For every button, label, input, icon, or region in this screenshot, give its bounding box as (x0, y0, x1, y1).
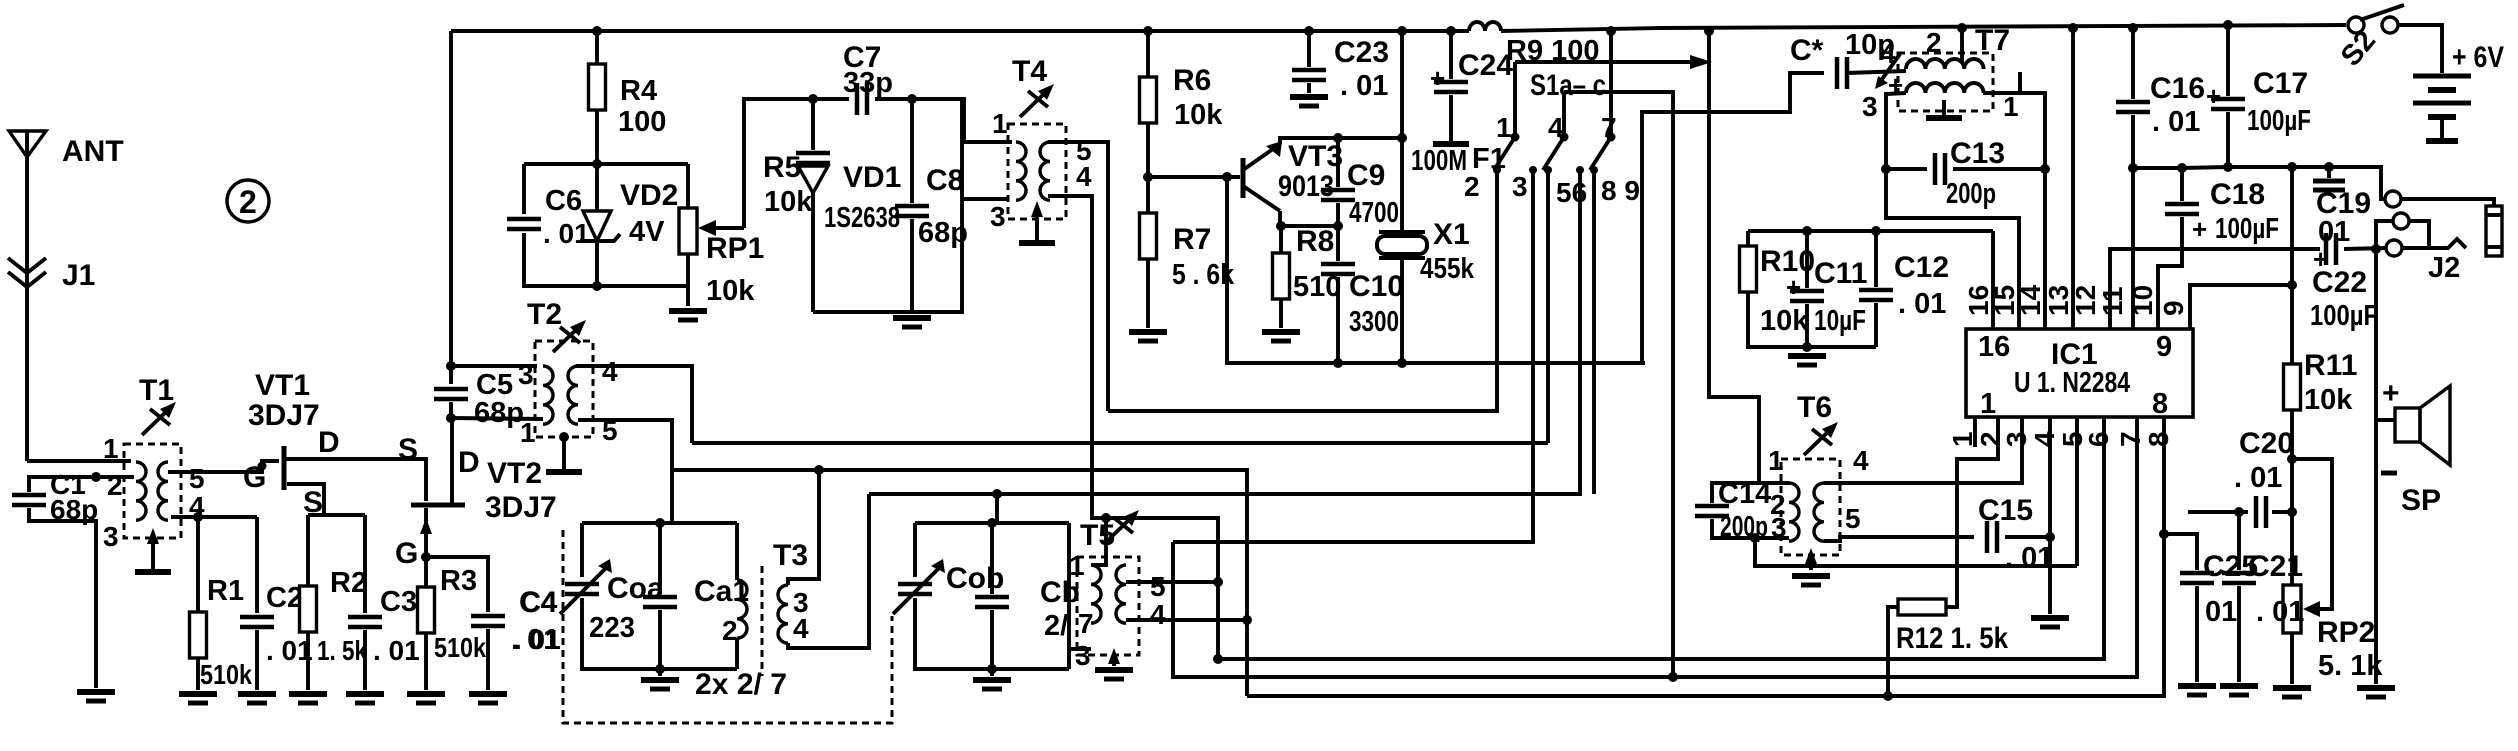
VT3 stage box (1227, 177, 1645, 363)
svg-text:33p: 33p (843, 67, 893, 99)
svg-text:C15: C15 (1978, 494, 2033, 527)
svg-text:9: 9 (2158, 300, 2189, 316)
svg-text:200p: 200p (1720, 511, 1768, 543)
wire pin13 from rail (2071, 28, 2075, 329)
resistor R2 (306, 515, 310, 586)
capacitor C19 (2327, 167, 2331, 178)
resistor R7 (1140, 213, 1157, 259)
svg-text:1: 1 (1069, 550, 1085, 581)
wire T1 pin4 node (171, 515, 257, 519)
svg-text:SP: SP (2401, 484, 2441, 517)
switch S1 pole a (1511, 133, 1520, 142)
diode VD1 with R5 (811, 99, 815, 150)
capacitor C1 (29, 477, 134, 492)
svg-text:100µF: 100µF (2247, 105, 2311, 137)
wire mid contact to speaker line (2409, 221, 2429, 248)
svg-text:14: 14 (2015, 284, 2046, 316)
wire T7 center tap to rail (1960, 28, 1964, 62)
T1 core ground (151, 533, 155, 572)
capacitor C3 (363, 515, 367, 613)
wire RP1 wiper up to C7 line (744, 99, 849, 228)
svg-text:4V: 4V (629, 216, 665, 248)
svg-text:4: 4 (1076, 161, 1092, 192)
speaker SP (2395, 408, 2420, 442)
resistor R11 (2290, 167, 2294, 364)
svg-text:T2: T2 (527, 298, 562, 331)
dashed gang linkage (563, 530, 892, 723)
svg-text:+: + (2382, 377, 2400, 410)
ground under Cob (990, 669, 994, 676)
svg-text:16: 16 (1978, 331, 2010, 363)
svg-text:. 01: . 01 (373, 635, 420, 666)
svg-text:2: 2 (239, 184, 257, 220)
svg-text:R1: R1 (207, 575, 244, 607)
svg-text:RP1: RP1 (706, 232, 764, 265)
svg-text:1: 1 (103, 433, 119, 464)
wire T5 pin5 to line 540 (1126, 580, 1218, 584)
capacitor C16 (2131, 28, 2135, 99)
wire base node (1143, 172, 1153, 182)
capacitor C7 (857, 83, 867, 115)
battery 6V (2413, 74, 2471, 79)
svg-text:VD2: VD2 (620, 179, 678, 212)
variable capacitor Coa (565, 584, 599, 594)
capacitor C8 (910, 99, 914, 203)
svg-text:G: G (243, 461, 266, 494)
svg-text:C13: C13 (1950, 137, 2005, 170)
antenna ANT (9, 131, 46, 157)
svg-text:C3: C3 (380, 586, 417, 618)
wire Cob to band line 494 (995, 494, 999, 523)
svg-text:T6: T6 (1797, 391, 1832, 424)
svg-text:VT1: VT1 (255, 369, 310, 402)
svg-text:68p: 68p (474, 397, 524, 429)
svg-text:R4: R4 (620, 75, 657, 107)
svg-text:C6: C6 (545, 185, 582, 217)
wire T6 pin3 node to pin5 line (1755, 538, 2077, 566)
svg-text:C14: C14 (1718, 478, 1771, 510)
svg-text:9: 9 (2156, 331, 2172, 363)
svg-text:. 01: . 01 (266, 635, 313, 666)
svg-text:223: 223 (589, 612, 635, 644)
svg-text:7: 7 (2115, 431, 2146, 447)
svg-text:+: + (2192, 214, 2207, 244)
wire S1b to pin7 line (1564, 92, 1673, 677)
svg-text:VT3: VT3 (1288, 140, 1343, 173)
wire C16 node to IC pin12 (2131, 168, 2135, 329)
svg-text:R5: R5 (763, 151, 801, 184)
svg-text:510k: 510k (200, 659, 252, 690)
capacitor C25 (2164, 534, 2197, 570)
wire rail to S2 (1501, 25, 2346, 31)
capacitor C21 (2237, 512, 2241, 570)
wire VT2 gate node (426, 557, 488, 612)
IC pin1 stub (1973, 417, 1977, 447)
svg-text:R12 1. 5k: R12 1. 5k (1896, 622, 2008, 655)
svg-text:. 01: . 01 (2152, 106, 2200, 138)
svg-text:4: 4 (793, 613, 809, 644)
svg-text:455k: 455k (1420, 253, 1475, 285)
svg-text:J2: J2 (2428, 252, 2460, 284)
svg-text:. 01: . 01 (2005, 542, 2053, 574)
svg-text:VD1: VD1 (843, 161, 901, 194)
wire antenna down (25, 157, 29, 461)
circled 2 figure number (227, 180, 269, 222)
svg-text:VT2: VT2 (487, 457, 542, 490)
svg-text:R2: R2 (330, 567, 367, 599)
svg-text:Coa: Coa (607, 572, 664, 605)
capacitor C23 (1307, 31, 1311, 67)
svg-text:2: 2 (722, 615, 738, 646)
svg-text:G: G (395, 537, 418, 570)
svg-text:10k: 10k (764, 186, 813, 218)
resistor R4 (595, 31, 599, 64)
resistor R3 (424, 557, 428, 587)
capacitor C9 (1336, 138, 1340, 187)
wire VT3 box to C* (1642, 73, 1824, 363)
svg-text:R3: R3 (440, 565, 477, 597)
svg-text:100µF: 100µF (2215, 213, 2279, 245)
svg-text:200p: 200p (1946, 178, 1996, 210)
wire S1 drop 6 (869, 170, 1580, 494)
wire C15 node to IC pin4 and ground (2048, 417, 2052, 537)
wire Cob box right edge (1067, 523, 1071, 669)
wire T6 pin4 to IC pin3 (1824, 417, 2022, 483)
wire top rail to T6 (1709, 31, 1759, 482)
capacitor C11 electrolytic (1805, 231, 1809, 288)
svg-text:2: 2 (107, 470, 123, 501)
wire cell top right to T4 pin1 (962, 99, 1012, 142)
capacitor C17 electrolytic (2226, 25, 2230, 96)
svg-text:10k: 10k (2304, 384, 2353, 416)
wire T4 pin5 down to switch (1048, 142, 1108, 411)
wire VT1 source (287, 484, 365, 515)
capacitor Ca1 (658, 523, 662, 594)
svg-text:T7: T7 (1975, 24, 2010, 57)
diode VD2 (zener 4V) (595, 164, 599, 211)
capacitor C22 electrolytic series (2326, 233, 2336, 265)
svg-text:10k: 10k (1760, 305, 1809, 337)
svg-text:C4: C4 (519, 586, 558, 619)
svg-text:. 01: . 01 (511, 624, 559, 656)
gang Coa tank box (582, 521, 737, 525)
wire bottom rail 696 to pin8 (1247, 417, 2164, 696)
svg-text:C21: C21 (2248, 550, 2303, 583)
capacitor C20 series (2272, 510, 2292, 514)
svg-text:C10: C10 (1349, 270, 1404, 303)
svg-text:+: + (1430, 63, 1445, 93)
ground under C1 (77, 692, 115, 701)
svg-text:C2: C2 (266, 582, 303, 614)
svg-text:1: 1 (2003, 91, 2019, 122)
svg-text:1S2638: 1S2638 (824, 202, 900, 234)
wire left rail from top (449, 31, 453, 384)
switch S1 pole c (1607, 133, 1616, 142)
svg-text:10k: 10k (1174, 99, 1223, 131)
svg-text:. 01: . 01 (543, 218, 590, 249)
wire pin5 up (2075, 417, 2079, 566)
wire IC pin9 (2190, 285, 2292, 329)
T2 core ground (559, 432, 569, 442)
wire S1 drop 5 (1546, 170, 1550, 443)
T5 core ground (1112, 655, 1116, 666)
resistor R8 (1279, 226, 1283, 253)
R10 C11 C12 block (1748, 229, 1993, 233)
svg-text:1: 1 (1768, 445, 1784, 476)
wire C8 cell bottom (813, 99, 962, 312)
svg-text:. 01: . 01 (2234, 462, 2282, 494)
svg-text:01: 01 (2318, 216, 2350, 248)
wire bottom contact with spring (2402, 239, 2466, 248)
svg-text:2x 2/ 7: 2x 2/ 7 (695, 668, 787, 701)
wire amp mid rail (2133, 167, 2386, 199)
wire S1 drop 2 (1108, 170, 1497, 411)
svg-text:. 01: . 01 (1340, 70, 1388, 102)
switch S1 pole b (1560, 133, 1569, 142)
svg-text:3300: 3300 (1349, 306, 1399, 338)
transistor VT3 9013 (1241, 158, 1246, 198)
svg-text:1. 5k: 1. 5k (317, 635, 367, 666)
svg-text:4: 4 (1853, 445, 1869, 476)
svg-text:3: 3 (990, 201, 1006, 232)
svg-text:10µF: 10µF (1814, 305, 1866, 337)
svg-text:C20: C20 (2239, 427, 2294, 460)
capacitor C5 (434, 389, 468, 399)
resistor R9 (wirewound bumps in rail) (1469, 22, 1501, 31)
svg-text:100µF: 100µF (2310, 300, 2378, 332)
svg-text:J1: J1 (62, 259, 95, 292)
T7 trimmer arrow (1880, 54, 1900, 82)
capacitor C18 electrolytic (2180, 168, 2184, 201)
wire S1 feed arrow (1515, 60, 1696, 64)
capacitor C10 (1336, 226, 1340, 261)
svg-text:8: 8 (2152, 388, 2168, 420)
svg-text:T5: T5 (1080, 519, 1115, 552)
svg-text:4: 4 (1150, 599, 1166, 630)
svg-text:3: 3 (1075, 640, 1091, 671)
svg-text:S1a– c: S1a– c (1530, 69, 1606, 102)
wire S2 to battery (2398, 25, 2442, 73)
coil in Coa box (735, 523, 739, 580)
wire T5 pin4 to bottom rail (1126, 618, 1247, 622)
svg-text:5. 1k: 5. 1k (2318, 650, 2383, 682)
svg-text:8 9: 8 9 (1601, 175, 1640, 206)
wire IC pin2 to R12 (1946, 417, 1998, 607)
wire T3 top to band line (788, 470, 819, 585)
wire T3 bottom to line 494 (788, 494, 869, 648)
svg-text:1: 1 (520, 417, 536, 448)
svg-text:C22: C22 (2312, 266, 2367, 299)
svg-text:11: 11 (2097, 286, 2128, 316)
capacitor C24 electrolytic (1449, 31, 1453, 79)
svg-text:R6: R6 (1173, 64, 1211, 97)
svg-text:3: 3 (2001, 431, 2032, 447)
potentiometer RP1 (686, 164, 690, 208)
svg-text:C9: C9 (1347, 159, 1385, 192)
svg-text:D: D (318, 426, 340, 459)
wire T5 pin1 hook (1091, 557, 1106, 565)
svg-text:3DJ7: 3DJ7 (485, 491, 557, 524)
IC1 box (1966, 329, 2193, 417)
svg-text:1: 1 (992, 108, 1008, 139)
resistor R1 (196, 517, 200, 613)
phone plug (2486, 206, 2502, 256)
wire emitter node (1280, 211, 1338, 226)
svg-text:3: 3 (103, 521, 119, 552)
wire collector line (1280, 138, 1402, 144)
gang Cob tank box (915, 521, 1069, 525)
svg-text:C11: C11 (1814, 257, 1867, 290)
svg-text:. 01: . 01 (1898, 288, 1946, 320)
svg-text:C8: C8 (926, 164, 964, 197)
capacitor C15 (1987, 521, 1997, 553)
capacitor C6 (507, 219, 541, 229)
svg-text:5: 5 (189, 463, 205, 494)
wire T2 line to S1 (692, 441, 1548, 445)
svg-text:Cob: Cob (946, 562, 1004, 595)
svg-text:01: 01 (2205, 596, 2237, 628)
svg-text:T1: T1 (139, 374, 174, 407)
svg-text:100: 100 (618, 106, 666, 138)
svg-text:5: 5 (1845, 503, 1861, 534)
svg-text:T4: T4 (1012, 55, 1047, 88)
svg-text:ANT: ANT (62, 135, 124, 168)
svg-text:S: S (303, 486, 323, 519)
capacitor C14 (1712, 483, 1789, 503)
T6 core ground (1809, 555, 1813, 570)
connector J1 (chevrons) (8, 258, 46, 273)
wire T2 pin5 to band line (578, 420, 672, 470)
wire Coa to band line (670, 470, 674, 523)
svg-text:100M: 100M (1411, 145, 1467, 177)
svg-text:2/: 2/ (1044, 610, 1068, 642)
wire bottom rail 659 to pin6 (1218, 417, 2104, 659)
variable capacitor Cob (898, 584, 932, 594)
svg-text:68p: 68p (50, 494, 98, 525)
switch S2 (2348, 17, 2364, 33)
svg-text:3DJ7: 3DJ7 (248, 399, 320, 432)
ground under Coa (658, 669, 662, 676)
wire bottom rail 677 to pin7 (1173, 417, 2137, 677)
svg-text:C17: C17 (2253, 67, 2308, 100)
wire antenna to T1 pin1 (27, 459, 131, 463)
capacitor C2 (255, 517, 259, 613)
svg-text:4700: 4700 (1349, 197, 1399, 229)
wire C5 node to T2 pin1 (451, 418, 543, 419)
svg-text:X1: X1 (1433, 218, 1470, 251)
wire T7 pin1 to C13 right (1983, 72, 2020, 93)
svg-text:C16: C16 (2150, 72, 2205, 105)
svg-text:C12: C12 (1894, 251, 1949, 284)
svg-text:+: + (2206, 81, 2221, 111)
svg-text:R7: R7 (1173, 223, 1211, 256)
svg-text:1: 1 (1980, 388, 1996, 420)
svg-text:S: S (398, 433, 418, 466)
svg-text:3: 3 (1512, 171, 1528, 202)
T4 core ground (1035, 206, 1039, 243)
wire band line a (672, 470, 1247, 696)
svg-text:56: 56 (1556, 177, 1587, 208)
svg-text:10k: 10k (706, 275, 755, 307)
wire top supply rail (451, 29, 1469, 33)
wire S1 drop 3 (1173, 170, 1533, 542)
svg-text:1: 1 (1496, 112, 1512, 143)
wire block to IC pin16 (1991, 231, 1995, 329)
VD2 cell box (524, 162, 688, 166)
svg-text:6: 6 (2083, 431, 2114, 447)
svg-text:T3: T3 (773, 539, 808, 572)
wire T7 pin3 down (1886, 93, 2019, 329)
svg-text:C23: C23 (1334, 36, 1389, 69)
wire cell to T4 pin3 (962, 197, 1008, 201)
svg-text:+ 6V: + 6V (2452, 41, 2504, 74)
svg-text:8: 8 (2143, 431, 2174, 447)
svg-text:R8: R8 (1296, 225, 1334, 258)
svg-text:510k: 510k (434, 632, 486, 663)
wire speaker feed down (2374, 249, 2378, 684)
svg-text:RP2: RP2 (2317, 616, 2375, 649)
svg-text:2: 2 (1464, 171, 1480, 202)
svg-text:R11: R11 (2304, 349, 2357, 382)
wire T1 pin5 to VT1 gate (168, 461, 279, 472)
svg-text:U 1. N2284: U 1. N2284 (2014, 367, 2130, 399)
capacitor C4 (471, 616, 505, 626)
jack J2 contacts (2385, 191, 2401, 207)
resistor R12 (1898, 599, 1946, 615)
wire T4 pin4 down to T5 (1048, 196, 1218, 659)
capacitor C12 (1874, 231, 1878, 287)
capacitor C13 (1886, 167, 1927, 171)
resistor R10 (1740, 246, 1757, 292)
svg-text:+: + (1786, 272, 1801, 302)
svg-text:C18: C18 (2210, 178, 2265, 211)
svg-text:C24: C24 (1458, 49, 1513, 82)
svg-text:4: 4 (602, 356, 618, 387)
wire IC pin11 audio out (2110, 249, 2320, 329)
svg-text:D: D (458, 446, 480, 479)
capacitor in Cob box (990, 523, 994, 594)
potentiometer RP2 (2283, 585, 2301, 633)
crystal X1 455k (1400, 138, 1404, 232)
svg-text:3: 3 (1862, 91, 1878, 122)
wire T5 pin3 to Cob box (1069, 647, 1091, 651)
svg-text:. 01: . 01 (2256, 596, 2304, 628)
wire T2 pin4 to switch line (576, 366, 692, 443)
svg-text:3: 3 (518, 359, 534, 390)
T7 core ground (1942, 100, 1946, 118)
wire VT1 drain (284, 459, 426, 501)
wire T6 pin5 to C15 (1824, 537, 1974, 541)
svg-text:C*: C* (1790, 34, 1824, 67)
ground speaker (2357, 688, 2395, 697)
wire top contact to plug (2401, 199, 2494, 206)
resistor R6 (1146, 31, 1150, 78)
svg-text:5: 5 (1150, 571, 1166, 602)
wire rail branch to T2 pin3 (451, 364, 537, 368)
svg-text:4: 4 (2029, 431, 2060, 447)
